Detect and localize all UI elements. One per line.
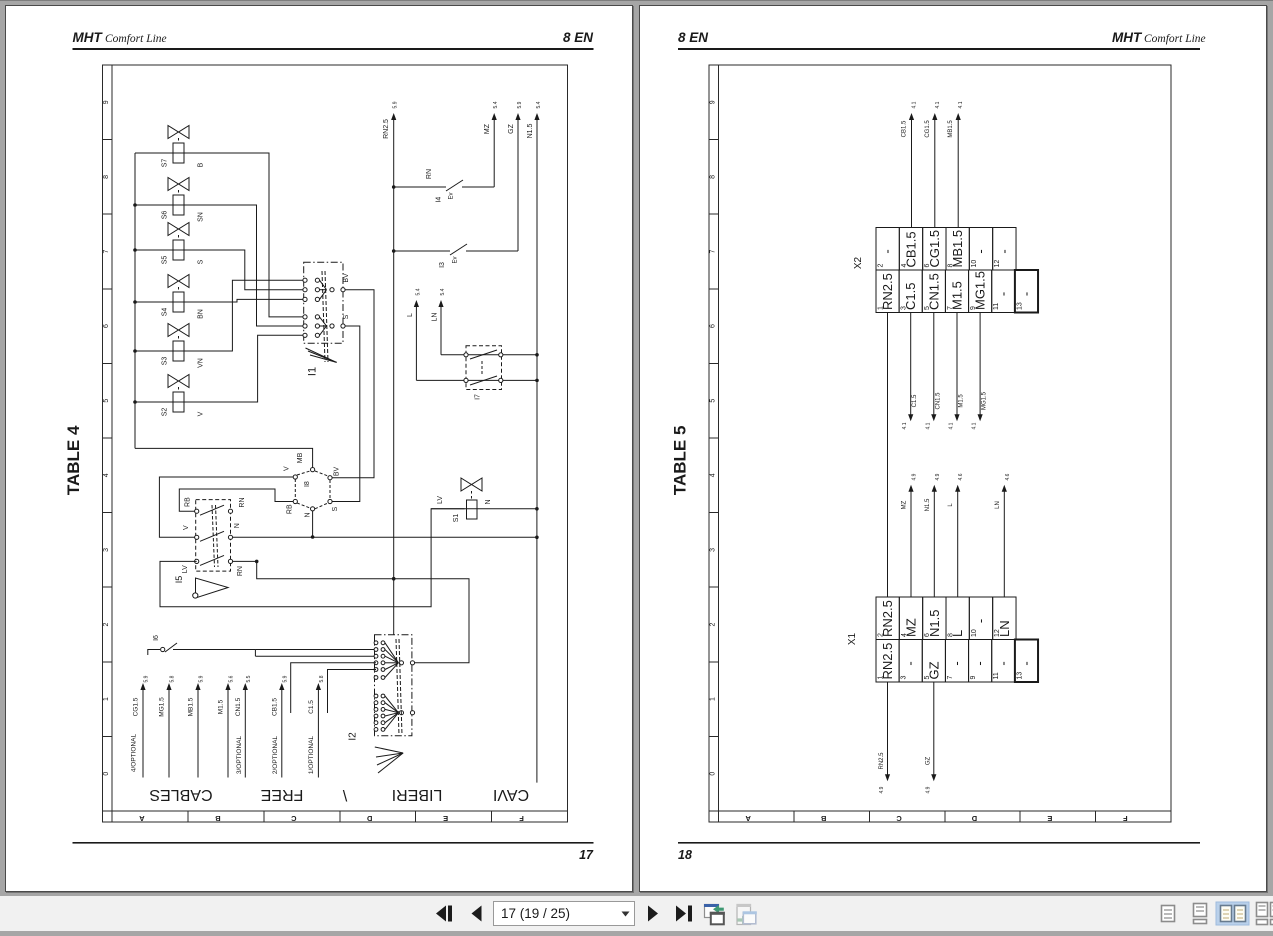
svg-text:I5: I5 (174, 576, 184, 584)
svg-text:-: - (949, 661, 964, 665)
svg-text:RN2.5: RN2.5 (383, 119, 390, 139)
svg-text:MHT: MHT (73, 30, 104, 45)
svg-text:S: S (198, 259, 205, 264)
svg-text:N1.5: N1.5 (925, 498, 931, 511)
svg-text:4.6: 4.6 (958, 473, 964, 480)
svg-text:-: - (1018, 292, 1033, 296)
svg-text:2/OPTIONAL: 2/OPTIONAL (272, 735, 279, 774)
svg-text:8: 8 (710, 175, 717, 179)
svg-text:4.9: 4.9 (925, 786, 931, 793)
svg-text:5.4: 5.4 (415, 288, 421, 295)
svg-text:LN: LN (432, 313, 439, 322)
svg-text:D: D (366, 814, 372, 823)
svg-text:BV: BV (343, 273, 350, 283)
svg-text:MG1.5: MG1.5 (982, 391, 988, 410)
svg-text:A: A (139, 814, 145, 823)
svg-text:-: - (973, 249, 988, 253)
svg-text:I6: I6 (153, 635, 160, 641)
svg-text:4.9: 4.9 (912, 473, 918, 480)
svg-text:M1.5: M1.5 (959, 394, 965, 408)
svg-text:MZ: MZ (902, 500, 908, 509)
svg-text:0: 0 (103, 772, 110, 776)
svg-text:X1: X1 (847, 632, 858, 645)
svg-text:M1.5: M1.5 (218, 699, 225, 714)
svg-text:4.9: 4.9 (935, 473, 941, 480)
svg-text:5: 5 (924, 676, 931, 680)
svg-text:S1: S1 (453, 514, 460, 523)
svg-text:5: 5 (710, 399, 717, 403)
svg-text:13: 13 (1016, 672, 1023, 680)
svg-text:-: - (903, 661, 918, 665)
svg-text:5.9: 5.9 (393, 101, 399, 108)
svg-text:7: 7 (103, 249, 110, 253)
svg-text:S4: S4 (162, 308, 169, 317)
svg-text:6: 6 (924, 264, 931, 268)
svg-text:5.5: 5.5 (246, 675, 252, 682)
svg-text:5: 5 (924, 306, 931, 310)
svg-text:N1.5: N1.5 (527, 124, 534, 139)
svg-text:CN1.5: CN1.5 (235, 697, 242, 716)
svg-text:L: L (948, 503, 954, 507)
svg-text:E: E (443, 814, 448, 823)
svg-text:RN: RN (426, 169, 433, 179)
svg-text:11: 11 (993, 303, 1000, 310)
svg-text:E: E (1047, 814, 1052, 823)
svg-text:CAVI: CAVI (493, 786, 529, 803)
svg-text:F: F (1123, 814, 1128, 823)
svg-text:C: C (896, 814, 902, 823)
svg-text:4: 4 (103, 473, 110, 477)
svg-text:3: 3 (901, 676, 908, 680)
svg-text:5.4: 5.4 (536, 101, 542, 108)
svg-text:10: 10 (971, 629, 978, 637)
svg-text:6: 6 (710, 324, 717, 328)
svg-text:S5: S5 (162, 256, 169, 265)
svg-text:RN: RN (239, 497, 246, 507)
svg-text:4: 4 (710, 473, 717, 477)
svg-text:V: V (183, 525, 190, 530)
svg-text:I8: I8 (304, 481, 311, 487)
svg-text:CG1.5: CG1.5 (133, 697, 140, 716)
svg-text:4/OPTIONAL: 4/OPTIONAL (131, 733, 138, 772)
svg-text:S3: S3 (162, 357, 169, 366)
svg-text:4.1: 4.1 (958, 101, 964, 108)
svg-text:17: 17 (579, 848, 594, 862)
svg-text:5.9: 5.9 (517, 101, 523, 108)
svg-text:CB1.5: CB1.5 (902, 120, 908, 137)
svg-text:N: N (234, 523, 241, 528)
svg-text:BN: BN (198, 309, 205, 319)
svg-text:18: 18 (678, 848, 692, 862)
svg-text:A: A (745, 814, 751, 823)
svg-text:S6: S6 (162, 211, 169, 220)
svg-text:4: 4 (901, 264, 908, 268)
svg-text:7: 7 (947, 306, 954, 310)
svg-text:1: 1 (878, 676, 885, 680)
svg-text:B: B (215, 814, 221, 823)
svg-text:5: 5 (103, 399, 110, 403)
svg-text:-: - (995, 661, 1010, 665)
svg-text:MB1.5: MB1.5 (950, 230, 965, 268)
svg-text:2: 2 (878, 633, 885, 637)
svg-text:TABLE 5: TABLE 5 (671, 426, 690, 496)
svg-text:4.1: 4.1 (972, 422, 978, 429)
svg-text:4.1: 4.1 (949, 422, 955, 429)
svg-text:I4: I4 (436, 197, 443, 203)
svg-text:L: L (407, 313, 414, 317)
svg-text:I7: I7 (475, 394, 482, 400)
svg-text:S2: S2 (162, 408, 169, 417)
svg-text:BV: BV (334, 467, 341, 477)
svg-text:Ev: Ev (449, 192, 455, 199)
svg-text:I3: I3 (439, 262, 446, 268)
svg-text:B: B (198, 162, 205, 167)
svg-text:LN: LN (995, 501, 1001, 509)
svg-text:4.1: 4.1 (925, 422, 931, 429)
svg-text:12: 12 (994, 260, 1001, 268)
svg-text:RB: RB (184, 497, 191, 507)
svg-text:VN: VN (198, 358, 205, 368)
svg-text:MB1.5: MB1.5 (188, 697, 195, 716)
svg-text:V: V (198, 411, 205, 416)
svg-text:-: - (973, 619, 988, 623)
svg-text:0: 0 (710, 772, 717, 776)
svg-text:N1.5: N1.5 (927, 610, 942, 637)
svg-text:I1: I1 (307, 367, 319, 376)
svg-text:V: V (284, 466, 291, 471)
svg-text:4: 4 (901, 633, 908, 637)
svg-text:3: 3 (901, 306, 908, 310)
svg-text:RN2.5: RN2.5 (880, 600, 895, 637)
svg-text:RN2.5: RN2.5 (880, 273, 895, 310)
svg-text:D: D (971, 814, 977, 823)
svg-text:-: - (880, 249, 895, 253)
svg-text:9: 9 (710, 100, 717, 104)
svg-text:MZ: MZ (484, 123, 491, 134)
svg-text:-: - (995, 292, 1010, 296)
svg-text:3/OPTIONAL: 3/OPTIONAL (236, 735, 243, 774)
svg-text:2: 2 (103, 622, 110, 626)
svg-text:GZ: GZ (508, 123, 515, 133)
svg-text:6: 6 (924, 633, 931, 637)
svg-text:CABLES: CABLES (149, 786, 212, 803)
svg-text:17 (19 / 25): 17 (19 / 25) (501, 906, 570, 921)
svg-text:S: S (332, 507, 339, 512)
svg-text:X2: X2 (853, 256, 864, 269)
svg-text:CN1.5: CN1.5 (926, 273, 941, 310)
svg-text:Comfort Line: Comfort Line (1144, 33, 1206, 45)
svg-text:N: N (485, 499, 492, 504)
svg-text:4.9: 4.9 (879, 786, 885, 793)
svg-text:5.4: 5.4 (493, 101, 499, 108)
svg-text:3: 3 (103, 548, 110, 552)
svg-text:9: 9 (970, 676, 977, 680)
svg-text:1: 1 (878, 306, 885, 310)
svg-text:CB1.5: CB1.5 (904, 231, 919, 267)
svg-text:M1.5: M1.5 (950, 281, 965, 310)
svg-text:1: 1 (103, 697, 110, 701)
svg-text:MG1.5: MG1.5 (159, 697, 166, 717)
svg-text:4.1: 4.1 (912, 101, 918, 108)
svg-text:MG1.5: MG1.5 (973, 271, 988, 310)
svg-text:RN2.5: RN2.5 (879, 752, 885, 770)
svg-text:SN: SN (198, 212, 205, 222)
svg-text:MB1.5: MB1.5 (948, 120, 954, 138)
svg-text:1: 1 (710, 697, 717, 701)
svg-text:5.9: 5.9 (282, 675, 288, 682)
svg-text:Ev: Ev (453, 256, 459, 263)
svg-text:N: N (305, 512, 312, 517)
svg-text:C1.5: C1.5 (903, 283, 918, 310)
svg-text:LV: LV (182, 565, 189, 573)
svg-text:1/OPTIONAL: 1/OPTIONAL (308, 735, 315, 774)
svg-text:F: F (519, 814, 524, 823)
svg-text:9: 9 (103, 100, 110, 104)
svg-text:RN: RN (237, 566, 244, 576)
svg-text:C1.5: C1.5 (308, 700, 315, 714)
svg-text:I2: I2 (348, 732, 359, 741)
svg-text:9: 9 (970, 306, 977, 310)
svg-text:C1.5: C1.5 (912, 394, 918, 407)
svg-text:-: - (1018, 661, 1033, 665)
svg-text:7: 7 (710, 249, 717, 253)
svg-text:6: 6 (103, 324, 110, 328)
svg-text:2: 2 (878, 264, 885, 268)
svg-text:12: 12 (994, 629, 1001, 637)
svg-text:4.6: 4.6 (1005, 473, 1011, 480)
svg-text:4.1: 4.1 (902, 422, 908, 429)
svg-text:5.6: 5.6 (229, 675, 235, 682)
svg-text:CG1.5: CG1.5 (927, 230, 942, 268)
svg-text:RN2.5: RN2.5 (880, 643, 895, 680)
svg-text:FREE: FREE (261, 786, 304, 803)
svg-text:4.1: 4.1 (935, 101, 941, 108)
svg-text:7: 7 (947, 676, 954, 680)
svg-text:TABLE 4: TABLE 4 (64, 425, 83, 495)
svg-text:S: S (343, 314, 350, 319)
svg-text:10: 10 (971, 260, 978, 268)
svg-text:B: B (820, 814, 826, 823)
svg-text:5.8: 5.8 (170, 675, 176, 682)
svg-text:8 EN: 8 EN (678, 30, 708, 45)
svg-text:8: 8 (103, 175, 110, 179)
svg-text:CB1.5: CB1.5 (271, 698, 278, 716)
svg-text:2: 2 (710, 622, 717, 626)
svg-text:5.9: 5.9 (199, 675, 205, 682)
svg-text:RB: RB (287, 504, 294, 514)
svg-text:CN1.5: CN1.5 (935, 392, 941, 410)
svg-text:Comfort Line: Comfort Line (105, 33, 167, 45)
svg-text:CG1.5: CG1.5 (925, 120, 931, 138)
svg-text:5.8: 5.8 (319, 675, 325, 682)
svg-text:S7: S7 (162, 159, 169, 168)
svg-text:11: 11 (993, 672, 1000, 679)
svg-text:GZ: GZ (925, 757, 931, 766)
svg-text:13: 13 (1016, 302, 1023, 310)
svg-text:3: 3 (710, 548, 717, 552)
svg-text:-: - (972, 661, 987, 665)
svg-text:\: \ (342, 786, 347, 803)
svg-text:8: 8 (948, 633, 955, 637)
svg-text:-: - (996, 249, 1011, 253)
svg-text:LIBERI: LIBERI (392, 786, 443, 803)
svg-text:5.9: 5.9 (144, 675, 150, 682)
svg-text:MHT: MHT (1112, 30, 1143, 45)
svg-text:C: C (291, 814, 297, 823)
svg-text:5.4: 5.4 (440, 288, 446, 295)
svg-text:LV: LV (437, 496, 444, 504)
svg-text:MB: MB (297, 452, 304, 463)
svg-text:8: 8 (948, 264, 955, 268)
svg-text:8 EN: 8 EN (563, 30, 593, 45)
